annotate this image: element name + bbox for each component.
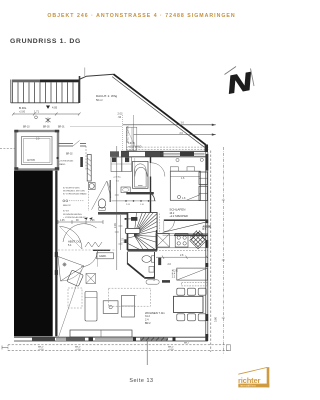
svg-text:1.38: 1.38 [153,276,156,281]
closet divider wall [121,155,123,172]
right wall jambs [205,220,208,342]
ABST label [68,240,81,247]
wall below stair corner [79,76,81,103]
bedroom door arc [151,163,165,177]
dim stack top [118,113,123,120]
diagonal roof wall [114,74,206,145]
landing notes [59,160,74,166]
svg-text:2.26: 2.26 [114,223,117,228]
eaves dashed lines [126,146,209,148]
corridor dashed line [88,191,90,211]
left wall window blocks [55,252,58,257]
stair top marker [131,217,137,221]
svg-text:B. WOHTW DES: B. WOHTW DES [63,187,80,189]
logo right bar [267,367,270,387]
dim ticks row [46,118,51,123]
bottom BR labels [38,343,190,352]
page number [0,378,283,384]
svg-text:B.S.: B.S. [203,229,208,231]
exterior stair left edge [10,80,12,104]
svg-text:WAND: WAND [59,163,66,166]
vertical dim lines mid [115,146,123,270]
bedroom label [169,208,188,219]
svg-text:3.80: 3.80 [214,316,218,322]
chaise longue [85,292,97,322]
WOHNEN label [145,311,165,325]
kitchen dim line [156,256,208,259]
bathtub [133,161,149,188]
stair bottom wall [127,250,157,252]
kitchen wall left [156,230,158,250]
svg-text:WOHNUNGSEING.: WOHNUNGSEING. [63,214,83,216]
bath/bedroom divider wall [150,157,152,163]
compass N [225,67,255,100]
svg-text:2.8: 2.8 [180,254,184,257]
bench dashed [182,283,208,286]
svg-text:+0.50: +0.50 [168,349,174,351]
window ref bubbles [176,158,179,161]
side table X [86,274,96,284]
wall right of black mass [55,171,57,337]
entry closet [126,127,137,150]
curved wall corner [149,193,155,201]
stove [175,234,188,247]
svg-text:BR-02: BR-02 [66,154,73,156]
wardrobe right [199,172,208,201]
svg-text:·94: ·94 [118,116,122,119]
svg-text:DACHT. 2. Whg: DACHT. 2. Whg [96,94,118,98]
long sight diagonal [59,269,83,337]
wall note text [128,143,142,148]
dashed roof line right [210,151,212,353]
sink diamond hatched [190,231,207,249]
svg-text:+0.50: +0.50 [38,349,44,351]
svg-text:GARD.: GARD. [99,255,107,258]
property line ticks [222,200,225,318]
bath bottom wall band [126,192,154,194]
landing door leaf [73,141,80,147]
left edge dim bottom [2,346,8,350]
BR labels row [23,127,65,129]
elevator room outer wall [16,131,59,170]
svg-text:richter: richter [238,376,260,385]
hall wall [93,249,110,251]
radiator below WC [146,280,159,284]
svg-text:1.6: 1.6 [181,177,185,180]
dim row mid [58,220,103,224]
svg-text:B.DG: B.DG [19,106,27,110]
notes text block left [63,187,87,219]
dashed vline kitchen left [159,214,161,234]
bedroom door leaf [150,163,152,177]
svg-text:1.10: 1.10 [140,204,145,206]
dash-dot property line right [222,147,224,354]
elevator wall corner blocks [14,130,59,170]
title [10,38,81,45]
svg-text:ANT.05: ANT.05 [27,159,36,162]
svg-text:BR-01: BR-01 [58,127,65,129]
dashed zone left [68,288,82,308]
svg-text:+VORSCHLAG: +VORSCHLAG [59,160,74,163]
svg-text:+4.03 WAND: +4.03 WAND [128,145,142,148]
top wall band of bedroom [121,151,206,157]
svg-text:+2.2 SPEICHER: +2.2 SPEICHER [169,215,188,218]
svg-text:7.5: 7.5 [116,181,120,183]
svg-text:1.71: 1.71 [34,110,40,114]
svg-text:BR-05: BR-05 [43,127,50,129]
dashed terrace lines bottom [8,344,230,346]
dotted dim line with markers [112,200,156,202]
WC room walls [127,252,154,277]
entry closet [111,157,132,172]
kitchen door post [158,258,161,265]
dishwasher X square [156,234,170,247]
entry arch door [135,167,147,176]
svg-text:2.26: 2.26 [126,204,131,206]
elevator inner cabin [22,137,53,165]
svg-text:BRH 92: BRH 92 [63,205,71,207]
winder stair [128,213,157,250]
exterior stair steps [13,82,79,102]
toilet [98,199,105,208]
note arrows [84,217,93,219]
exterior stair top bar [12,80,40,83]
svg-text:BR.2: BR.2 [145,322,151,325]
svg-text:N: N [225,68,254,100]
svg-text:2.0: 2.0 [168,263,172,266]
svg-text:1.8: 1.8 [182,197,186,200]
bedroom door lower [163,221,165,232]
dashed end marker [227,345,231,351]
svg-text:4.05: 4.05 [52,106,58,110]
survey circle [35,116,38,119]
svg-text:2.0: 2.0 [36,138,40,141]
svg-text:+ VORSCHLAG BR-09: + VORSCHLAG BR-09 [63,216,86,219]
svg-text:5.4: 5.4 [68,244,72,247]
logo diagonal [238,367,267,374]
diagonal end corner [205,145,208,153]
sideboard bottom [70,330,132,337]
svg-text:WOHNEN 7.0m: WOHNEN 7.0m [145,311,165,315]
svg-text:3.6: 3.6 [181,122,185,125]
kitchen counter row [156,233,208,248]
svg-text:+0.50: +0.50 [75,349,81,351]
sideboard with diagonal [177,268,208,280]
svg-text:WOHNUNG. MIT UNV: WOHNUNG. MIT UNV [63,190,85,192]
dining chairs bottom [177,314,185,321]
level label B.DG [19,106,27,114]
circle dash annotation [63,200,65,202]
svg-text:WHG-TRENNW.: WHG-TRENNW. [126,125,129,143]
coffee table [103,301,118,314]
landing wall [59,144,87,147]
exterior stair base line [11,102,79,104]
svg-text:1.10: 1.10 [121,238,124,243]
landing marker dot [56,157,58,159]
bed [170,171,200,200]
vertical line inner [133,115,135,151]
dotted vertical dim line [122,115,124,151]
bathroom inner wall [109,180,111,202]
header line [0,13,283,19]
dim arrow line 2 [134,133,216,135]
dark stub dining [162,280,170,283]
ridge tick [84,68,86,77]
living room door arcs [58,257,84,282]
door post dark [80,157,83,167]
svg-text:BR-10: BR-10 [23,127,30,129]
dim arrow line 1 [123,124,216,126]
dashed work line [156,249,208,251]
entry wall band extension [110,151,119,157]
washbasin [121,187,130,193]
svg-text:90: 90 [76,220,79,222]
dashed line landing [85,146,87,170]
thin dim line to stack [70,125,122,127]
ESSEN label [172,269,178,279]
svg-text:BR.2: BR.2 [184,343,190,345]
circle cross symbol [63,263,66,266]
dashed line left of elevator [0,148,15,150]
GARD wardrobe [97,253,114,259]
svg-text:+2.80: +2.80 [19,111,26,114]
svg-text:immobilien: immobilien [240,384,256,388]
svg-text:1.35: 1.35 [60,220,65,222]
WC toilet [142,256,151,263]
media unit [122,296,135,318]
bottom outer wall [14,337,208,365]
right wall window dark segment [205,154,208,171]
bath door swing [92,181,111,210]
dining chairs top [177,288,185,295]
armchair rotated [67,270,84,287]
dashed mid line [58,249,116,251]
nightstands [170,167,178,171]
stair landing [125,228,140,233]
WC diagonal wall [127,263,144,277]
svg-text:2.2: 2.2 [172,276,176,279]
washing machine [88,183,95,190]
dim row labels [60,220,95,222]
svg-text:50 m²: 50 m² [96,98,103,102]
WC sink [149,267,154,273]
stair lower marker [124,239,126,243]
dining table [174,296,204,312]
dashed kitchen zone [109,288,151,306]
logo band [238,384,269,388]
zigzag symbol [85,242,102,247]
svg-text:+2.8 Sa: +2.8 Sa [113,177,121,179]
room label DACHT. 2. Whg [96,94,118,102]
right outer wall [206,145,208,337]
level marker triangle [46,106,50,109]
kitchen top wall [174,234,208,236]
svg-text:B. VORSCHLAG WAND: B. VORSCHLAG WAND [63,193,87,196]
roof outline top edge [79,74,114,79]
hall door arc [81,250,98,266]
bathroom bottom wall [98,212,128,215]
abst room door arcs [60,227,83,250]
stair left wall [126,213,128,251]
black building mass [14,171,53,337]
corridor hatched wall [87,155,91,182]
svg-text:3.63 B.: 3.63 B. [128,143,136,145]
bedroom bottom wall [164,219,208,221]
small texts under dim [126,204,145,206]
svg-text:1.06: 1.06 [90,220,95,222]
sloped ceiling diagonal [163,222,208,233]
dimension line under stair [12,113,81,116]
svg-text:B. WT: B. WT [63,211,70,213]
